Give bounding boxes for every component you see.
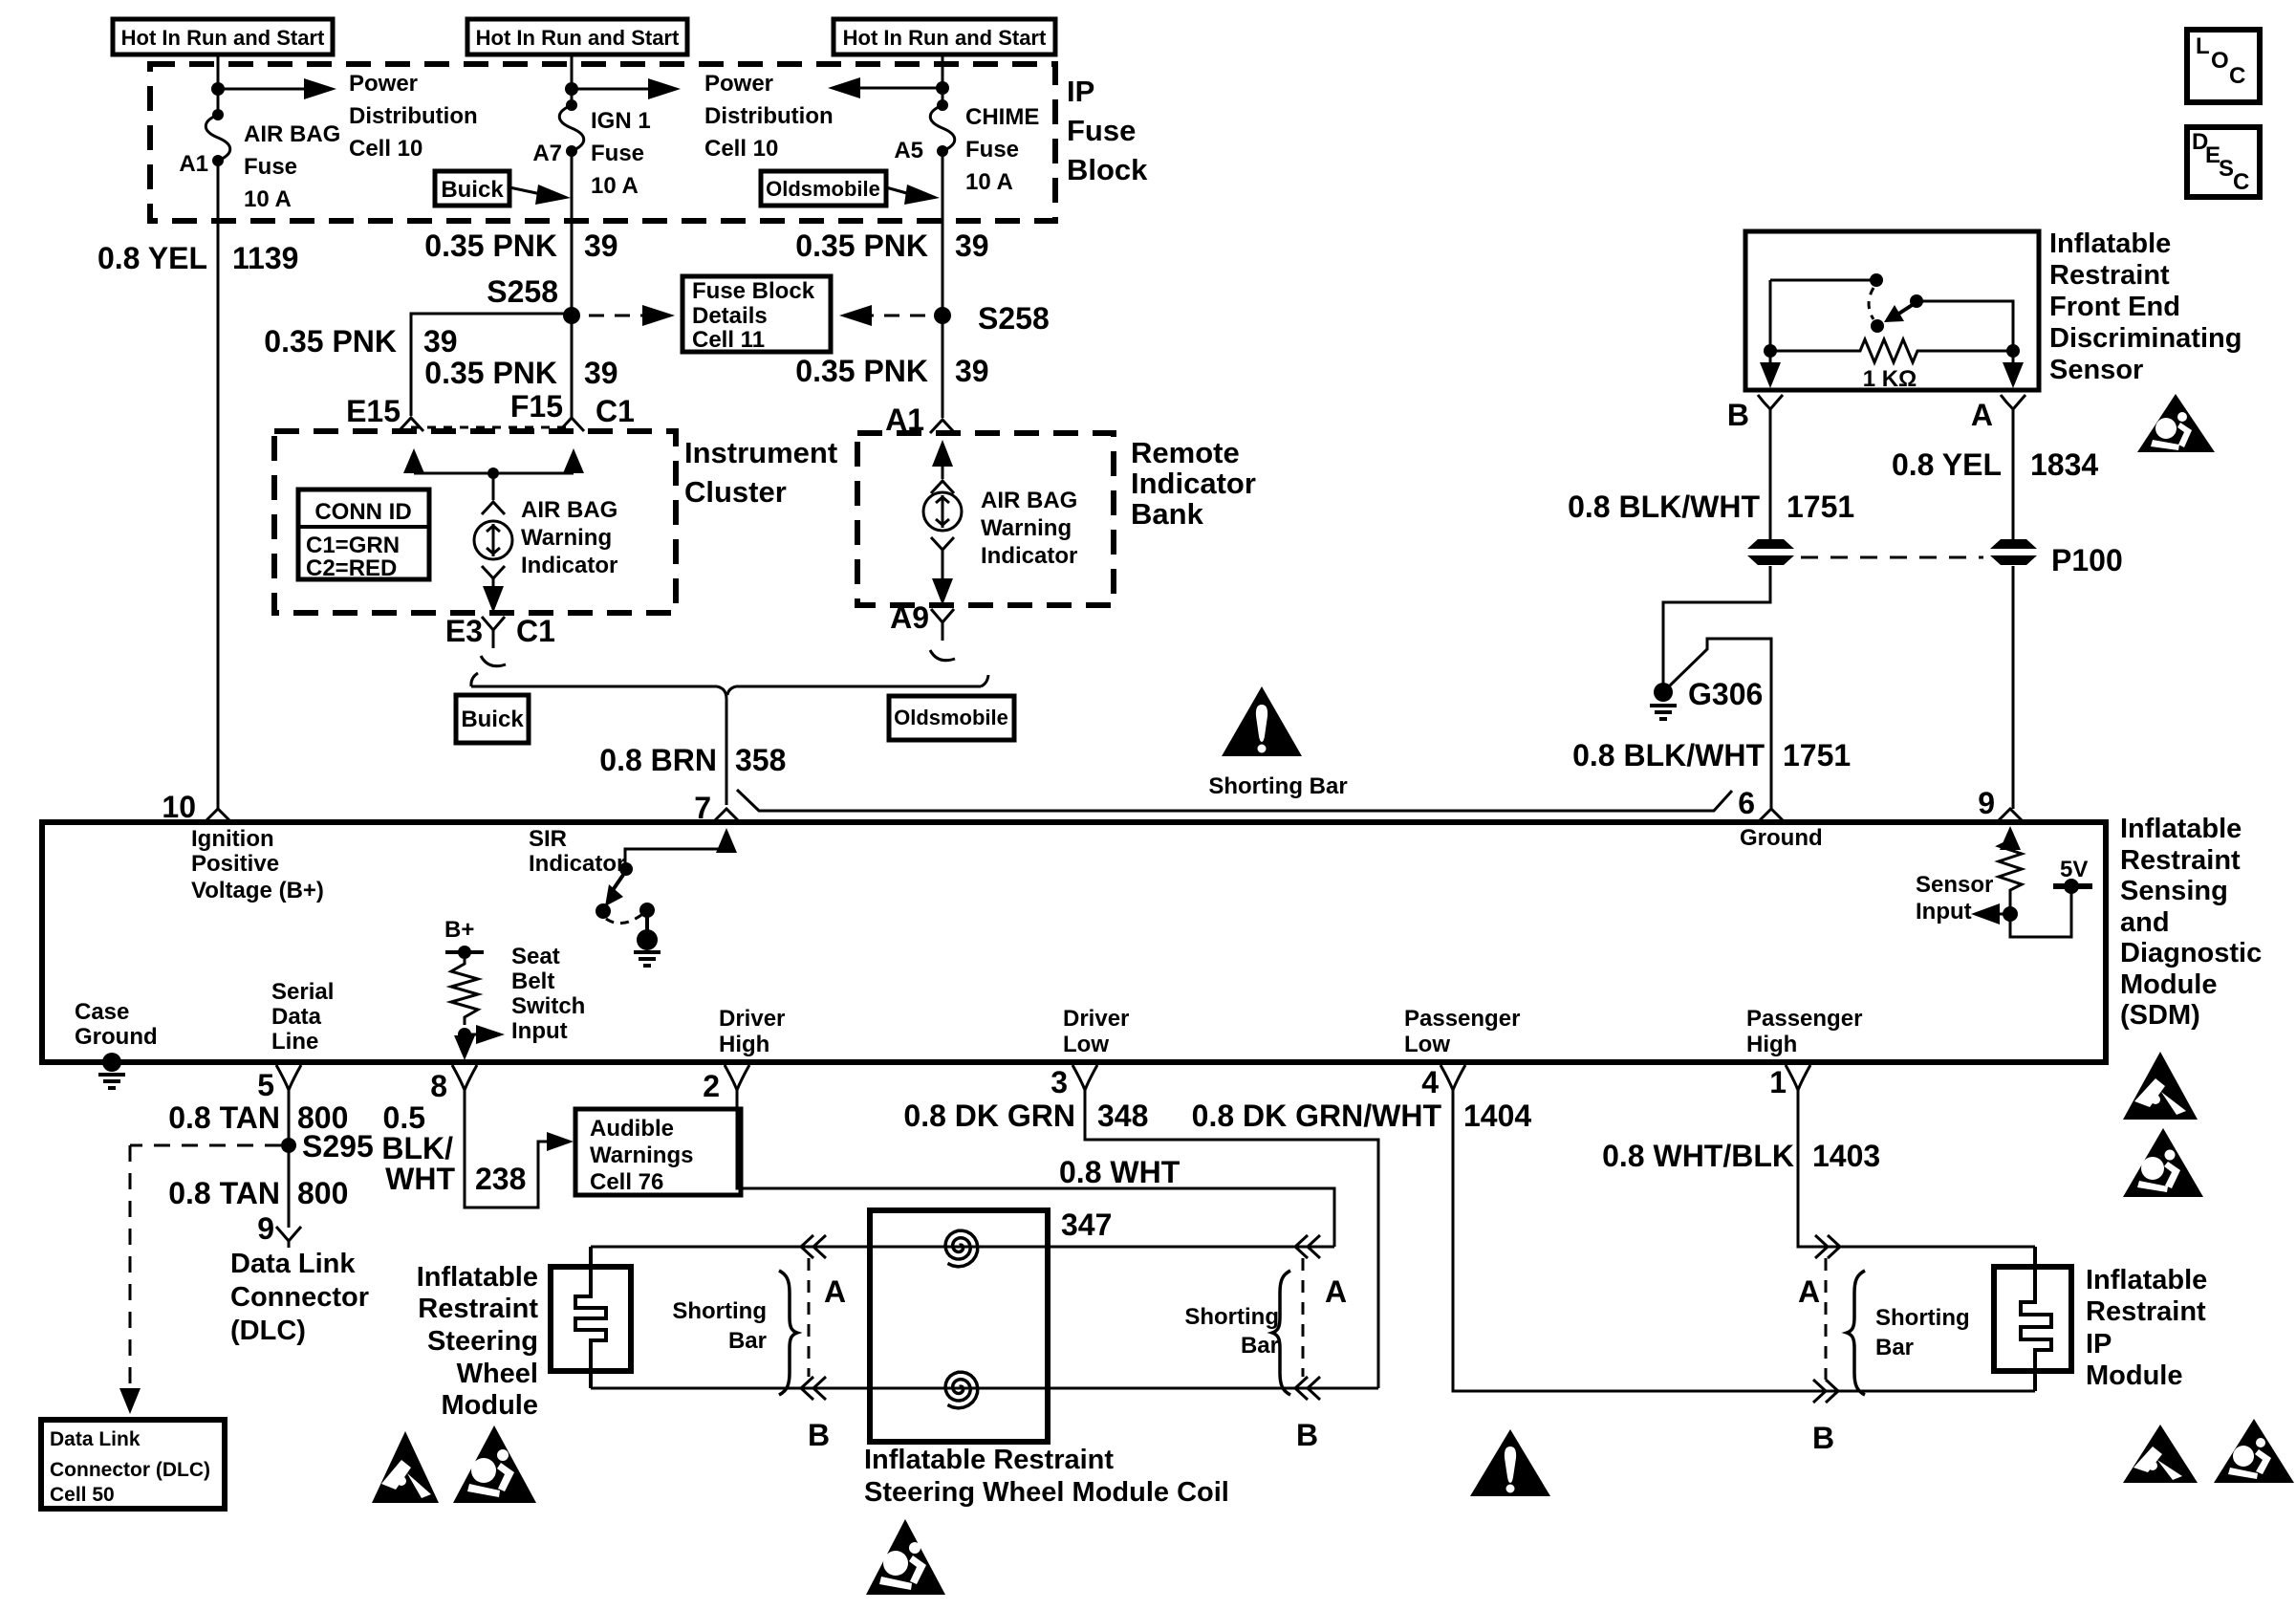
svg-text:9: 9 (257, 1211, 274, 1246)
svg-text:High: High (1746, 1032, 1797, 1057)
svg-text:39: 39 (423, 324, 458, 359)
svg-text:5: 5 (257, 1068, 274, 1102)
svg-text:B: B (1812, 1421, 1834, 1455)
svg-text:Distribution: Distribution (704, 103, 834, 129)
svg-text:Bank: Bank (1131, 497, 1204, 531)
svg-text:(SDM): (SDM) (2120, 1000, 2200, 1031)
svg-text:39: 39 (955, 228, 989, 263)
svg-text:Ground: Ground (1740, 825, 1823, 851)
svg-text:L: L (2196, 33, 2210, 59)
svg-text:A: A (1971, 398, 1993, 432)
svg-text:Distribution: Distribution (349, 103, 478, 129)
svg-text:Hot In Run and Start: Hot In Run and Start (843, 26, 1047, 50)
svg-text:WHT: WHT (385, 1162, 455, 1196)
svg-text:0.8 YEL: 0.8 YEL (97, 241, 207, 275)
svg-text:B: B (808, 1418, 830, 1452)
svg-text:0.35 PNK: 0.35 PNK (795, 354, 928, 388)
svg-text:Bar: Bar (1241, 1333, 1279, 1359)
svg-text:Remote: Remote (1131, 436, 1240, 469)
svg-text:Wheel: Wheel (457, 1359, 538, 1389)
svg-text:0.8 DK GRN/WHT: 0.8 DK GRN/WHT (1192, 1099, 1442, 1133)
svg-text:A9: A9 (890, 600, 929, 635)
svg-text:Inflatable: Inflatable (2120, 814, 2242, 844)
svg-text:1751: 1751 (1783, 738, 1851, 772)
svg-text:Bar: Bar (728, 1328, 767, 1354)
svg-text:Bar: Bar (1875, 1335, 1914, 1360)
svg-text:0.8 BRN: 0.8 BRN (599, 743, 717, 777)
svg-text:S: S (2219, 156, 2234, 182)
svg-text:0.5: 0.5 (383, 1100, 425, 1135)
svg-text:C1=GRN: C1=GRN (306, 533, 400, 558)
svg-text:Inflatable: Inflatable (2049, 228, 2171, 259)
svg-text:39: 39 (584, 356, 618, 390)
svg-text:Cluster: Cluster (684, 475, 787, 509)
svg-text:Inflatable: Inflatable (2086, 1265, 2207, 1295)
svg-text:39: 39 (955, 354, 989, 388)
svg-text:0.8 WHT/BLK: 0.8 WHT/BLK (1602, 1139, 1794, 1173)
svg-text:Diagnostic: Diagnostic (2120, 938, 2262, 968)
svg-text:Data Link: Data Link (50, 1428, 141, 1450)
svg-text:Shorting: Shorting (1875, 1305, 1970, 1331)
svg-text:IGN 1: IGN 1 (591, 108, 651, 134)
svg-text:Line: Line (271, 1029, 318, 1055)
svg-text:2: 2 (703, 1069, 720, 1103)
svg-text:Inflatable Restraint: Inflatable Restraint (864, 1445, 1114, 1475)
svg-text:Steering: Steering (427, 1326, 538, 1357)
svg-text:Input: Input (1916, 899, 1972, 925)
svg-text:0.8 BLK/WHT: 0.8 BLK/WHT (1568, 490, 1760, 524)
svg-text:P100: P100 (2051, 543, 2123, 577)
svg-text:348: 348 (1097, 1099, 1148, 1133)
svg-text:0.8 TAN: 0.8 TAN (168, 1176, 280, 1210)
svg-text:A7: A7 (532, 141, 562, 166)
svg-text:Input: Input (511, 1018, 568, 1044)
svg-text:1404: 1404 (1463, 1099, 1531, 1133)
svg-text:Positive: Positive (191, 851, 279, 877)
svg-text:Instrument: Instrument (684, 436, 837, 469)
svg-text:AIR BAG: AIR BAG (521, 497, 617, 523)
svg-text:B: B (1727, 398, 1749, 432)
svg-text:1403: 1403 (1812, 1139, 1880, 1173)
svg-text:Cell 76: Cell 76 (590, 1169, 663, 1195)
svg-text:A: A (1798, 1274, 1820, 1309)
svg-text:C2=RED: C2=RED (306, 555, 397, 581)
svg-text:Steering Wheel Module Coil: Steering Wheel Module Coil (864, 1477, 1229, 1508)
svg-text:Module: Module (2120, 969, 2218, 1000)
svg-text:S295: S295 (302, 1129, 374, 1164)
svg-text:A: A (824, 1274, 846, 1309)
svg-text:Fuse: Fuse (965, 137, 1019, 163)
svg-text:Low: Low (1063, 1032, 1109, 1057)
svg-text:A5: A5 (894, 138, 923, 163)
svg-text:AIR BAG: AIR BAG (981, 488, 1077, 513)
svg-text:Serial: Serial (271, 979, 334, 1005)
svg-text:IP: IP (1067, 75, 1094, 108)
svg-text:Voltage (B+): Voltage (B+) (191, 878, 324, 903)
svg-text:Module: Module (2086, 1360, 2183, 1391)
svg-text:Indicator: Indicator (981, 543, 1077, 569)
svg-text:Cell 10: Cell 10 (349, 136, 422, 162)
svg-text:A: A (1325, 1274, 1347, 1309)
svg-text:Fuse: Fuse (591, 141, 644, 166)
svg-text:0.8 BLK/WHT: 0.8 BLK/WHT (1572, 738, 1765, 772)
svg-text:Shorting: Shorting (1184, 1304, 1279, 1330)
svg-text:Fuse: Fuse (1067, 114, 1136, 147)
svg-text:Shorting Bar: Shorting Bar (1208, 773, 1347, 799)
svg-text:Sensor: Sensor (1916, 872, 1993, 898)
svg-text:Fuse: Fuse (244, 154, 297, 180)
svg-text:238: 238 (475, 1162, 526, 1196)
svg-text:Buick: Buick (461, 707, 524, 732)
svg-text:Oldsmobile: Oldsmobile (766, 177, 880, 201)
svg-text:and: and (2120, 907, 2170, 938)
svg-text:Front End: Front End (2049, 292, 2180, 322)
svg-text:Indicator: Indicator (521, 553, 617, 578)
svg-text:B+: B+ (444, 917, 474, 943)
svg-text:Buick: Buick (441, 177, 504, 203)
svg-text:0.35 PNK: 0.35 PNK (795, 228, 928, 263)
svg-text:Restraint: Restraint (2120, 845, 2241, 876)
svg-text:39: 39 (584, 228, 618, 263)
svg-text:Power: Power (349, 71, 418, 97)
svg-text:1 KΩ: 1 KΩ (1863, 366, 1917, 392)
svg-text:Hot In Run and Start: Hot In Run and Start (476, 26, 680, 50)
svg-text:Connector (DLC): Connector (DLC) (50, 1459, 210, 1481)
svg-text:Details: Details (692, 303, 768, 329)
svg-text:4: 4 (1421, 1065, 1439, 1099)
svg-text:Passenger: Passenger (1404, 1006, 1520, 1032)
svg-text:S258: S258 (487, 274, 558, 309)
svg-text:3: 3 (1051, 1065, 1068, 1099)
svg-text:0.35 PNK: 0.35 PNK (264, 324, 397, 359)
svg-text:Oldsmobile: Oldsmobile (894, 706, 1008, 729)
svg-text:Driver: Driver (1063, 1006, 1129, 1032)
svg-text:10: 10 (162, 790, 196, 824)
svg-text:C: C (2229, 63, 2245, 89)
svg-text:CHIME: CHIME (965, 104, 1039, 130)
svg-text:0.8 WHT: 0.8 WHT (1059, 1155, 1180, 1189)
svg-text:B: B (1296, 1418, 1318, 1452)
svg-text:(DLC): (DLC) (230, 1316, 306, 1346)
svg-text:C: C (2233, 169, 2249, 195)
svg-text:Restraint: Restraint (2086, 1296, 2206, 1327)
svg-text:Warning: Warning (981, 515, 1072, 541)
svg-text:Warnings: Warnings (590, 1142, 693, 1168)
svg-text:O: O (2211, 48, 2229, 74)
svg-text:0.35 PNK: 0.35 PNK (424, 356, 557, 390)
svg-text:Fuse Block: Fuse Block (692, 278, 815, 304)
svg-text:Cell 10: Cell 10 (704, 136, 778, 162)
svg-text:1834: 1834 (2030, 447, 2098, 482)
svg-text:G306: G306 (1688, 677, 1763, 711)
svg-text:0.35 PNK: 0.35 PNK (424, 228, 557, 263)
svg-text:Audible: Audible (590, 1116, 674, 1142)
svg-text:6: 6 (1738, 786, 1755, 820)
svg-text:Passenger: Passenger (1746, 1006, 1862, 1032)
svg-text:Cell 50: Cell 50 (50, 1484, 115, 1506)
svg-text:Warning: Warning (521, 525, 612, 551)
svg-text:0.8 YEL: 0.8 YEL (1892, 447, 2002, 482)
svg-text:Sensor: Sensor (2049, 355, 2143, 385)
svg-text:IP: IP (2086, 1329, 2112, 1360)
svg-text:Seat: Seat (511, 944, 560, 969)
svg-text:BLK/: BLK/ (381, 1131, 453, 1165)
svg-text:SIR: SIR (529, 826, 567, 852)
svg-text:10 A: 10 A (591, 173, 639, 199)
svg-text:Ground: Ground (75, 1024, 158, 1050)
svg-text:Discriminating: Discriminating (2049, 323, 2242, 354)
svg-text:Low: Low (1404, 1032, 1450, 1057)
svg-text:Indicator: Indicator (1131, 467, 1256, 500)
svg-text:8: 8 (430, 1069, 447, 1103)
svg-text:Switch: Switch (511, 993, 585, 1019)
svg-text:9: 9 (1978, 786, 1995, 820)
svg-text:1139: 1139 (232, 241, 298, 275)
svg-text:1: 1 (1769, 1065, 1787, 1099)
svg-text:Belt: Belt (511, 968, 554, 994)
svg-text:CONN ID: CONN ID (314, 499, 411, 525)
svg-text:7: 7 (694, 791, 711, 825)
svg-text:0.8 DK GRN: 0.8 DK GRN (903, 1099, 1075, 1133)
svg-text:C1: C1 (516, 614, 555, 648)
svg-text:358: 358 (735, 743, 786, 777)
svg-text:F15: F15 (510, 389, 563, 424)
svg-text:High: High (719, 1032, 769, 1057)
svg-text:Indicator: Indicator (529, 851, 625, 877)
svg-text:E15: E15 (346, 394, 401, 428)
svg-text:Restraint: Restraint (418, 1294, 538, 1324)
svg-text:Ignition: Ignition (191, 826, 274, 852)
svg-text:Restraint: Restraint (2049, 260, 2170, 291)
svg-text:Data: Data (271, 1004, 322, 1030)
svg-text:Sensing: Sensing (2120, 876, 2228, 906)
svg-text:Cell 11: Cell 11 (692, 327, 765, 353)
svg-text:Shorting: Shorting (672, 1298, 767, 1324)
svg-text:E3: E3 (445, 614, 483, 648)
svg-text:A1: A1 (179, 151, 208, 177)
svg-text:5V: 5V (2060, 857, 2088, 882)
svg-text:Block: Block (1067, 153, 1148, 186)
svg-text:Connector: Connector (230, 1282, 369, 1313)
svg-text:Data Link: Data Link (230, 1249, 356, 1279)
svg-text:800: 800 (297, 1176, 348, 1210)
svg-text:Driver: Driver (719, 1006, 785, 1032)
svg-text:Power: Power (704, 71, 773, 97)
svg-text:347: 347 (1061, 1207, 1112, 1242)
svg-text:AIR BAG: AIR BAG (244, 121, 340, 147)
svg-text:0.8 TAN: 0.8 TAN (168, 1100, 280, 1135)
svg-text:Case: Case (75, 999, 129, 1025)
svg-text:C1: C1 (596, 394, 635, 428)
svg-text:Hot In Run and Start: Hot In Run and Start (121, 26, 325, 50)
svg-text:S258: S258 (978, 301, 1050, 336)
svg-text:Inflatable: Inflatable (417, 1262, 538, 1293)
svg-text:1751: 1751 (1787, 490, 1854, 524)
svg-text:10 A: 10 A (965, 169, 1013, 195)
svg-text:10 A: 10 A (244, 186, 292, 212)
svg-text:Module: Module (442, 1390, 539, 1421)
